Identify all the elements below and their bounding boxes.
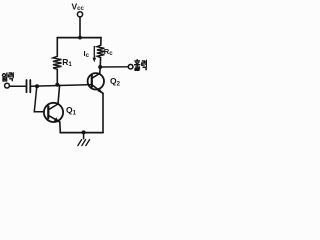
svg-text:Q1: Q1 [66,105,77,117]
svg-text:Q2: Q2 [110,76,121,88]
svg-text:Rc: Rc [104,47,113,57]
svg-text:Vcc: Vcc [72,2,85,13]
svg-text:Ic: Ic [84,49,90,59]
svg-text:R1: R1 [62,57,72,68]
